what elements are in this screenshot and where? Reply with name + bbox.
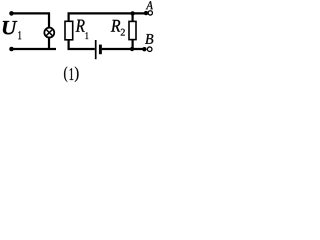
battery short thick plate <box>99 45 102 55</box>
junction dot at terminal A <box>144 11 148 15</box>
label terminal B <box>145 34 153 44</box>
label U subscript 1 <box>18 31 21 39</box>
label R2 R <box>111 20 121 32</box>
terminal A open circle <box>148 11 152 15</box>
wire R1 bottom to rail <box>69 41 95 50</box>
label R1 subscript 1 <box>86 32 89 39</box>
wire lamp bottom <box>48 37 50 49</box>
caption close paren <box>75 67 79 82</box>
terminal B open circle <box>147 47 152 52</box>
terminal dot top-left (U1 port +) <box>9 11 14 16</box>
wire top-left rail to lamp <box>12 13 50 28</box>
label terminal A <box>146 1 153 9</box>
wire bottom-left rail <box>12 48 57 50</box>
wire R2 top stub <box>132 13 134 21</box>
resistor R2 box <box>129 21 136 39</box>
battery long plate <box>95 40 97 59</box>
junction dot R2 bottom <box>130 47 134 51</box>
junction dot at terminal B <box>142 47 146 51</box>
lamp X stroke 1 <box>46 30 52 36</box>
caption digit 1 <box>70 68 74 80</box>
wire top rail R1 to A <box>69 13 145 20</box>
lamp EL circle <box>44 28 54 38</box>
label R1 R <box>76 20 85 32</box>
terminal dot bottom-left (U1 port -) <box>9 47 14 52</box>
wire R2 bottom stub <box>132 40 134 49</box>
lamp X stroke 2 <box>46 30 52 36</box>
label R2 subscript 2 <box>121 29 125 36</box>
caption open paren <box>64 67 67 82</box>
resistor R1 box <box>65 21 73 40</box>
label U <box>3 21 17 34</box>
wire battery to B <box>102 48 144 50</box>
junction dot R2 top <box>130 11 134 15</box>
